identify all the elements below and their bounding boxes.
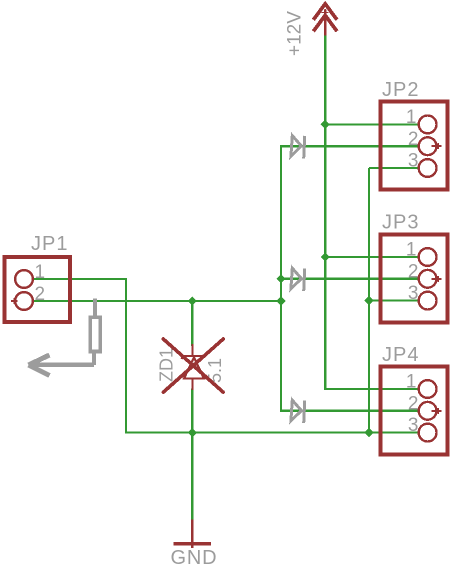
wire JP2 pin3 vertical: [368, 168, 370, 433]
zener diode ZD1 bar: [182, 353, 207, 359]
svg-text:1: 1: [406, 107, 417, 128]
connector JP4 pin 3 circle: [419, 424, 437, 442]
junction node zener top: [188, 296, 197, 305]
svg-text:JP2: JP2: [382, 79, 419, 101]
wire JP1 pin1 horizontal: [33, 278, 127, 280]
connector JP1 box: [5, 257, 70, 322]
wire zener branch upper: [191, 301, 193, 346]
svg-text:1: 1: [406, 240, 417, 261]
connector JP2 pin 1 circle: [419, 116, 437, 134]
svg-text:JP1: JP1: [31, 233, 68, 255]
junction node at +12V / JP2 pin1: [321, 120, 330, 129]
connector JP2 pin 3 circle: [419, 159, 437, 177]
svg-text:2: 2: [35, 284, 46, 305]
connector JP3 pin 2 circle: [419, 270, 437, 288]
wire JP1 pin2 horizontal: [33, 300, 281, 302]
junction node diode chain / JP1 pin2: [276, 296, 285, 305]
wire diode chain vertical: [280, 146, 282, 411]
power symbol +12V: [313, 4, 337, 36]
DNP cross over ZD1: [163, 339, 223, 392]
wire +12V to JP3 pin1: [325, 256, 418, 258]
svg-text:3: 3: [408, 283, 419, 304]
resistor ghost body: [90, 298, 100, 364]
wire JP2 pin3 horizontal: [369, 167, 418, 169]
connector JP1 pin 1 circle: [15, 270, 33, 288]
connector JP1 pin 2 stub: [11, 300, 18, 302]
ground symbol pin: [191, 520, 193, 549]
connector JP1 pin 2 circle: [15, 292, 33, 310]
zener diode ZD1 pin top: [191, 344, 193, 357]
svg-text:JP4: JP4: [382, 344, 419, 366]
svg-text:GND: GND: [171, 547, 218, 568]
wire D3 to JP4 pin2: [280, 410, 418, 412]
svg-text:2: 2: [408, 129, 419, 150]
connector JP4 pin 2 circle: [419, 402, 437, 420]
junction node ground rail / JP4 pin3: [364, 428, 373, 437]
ground symbol bar: [173, 542, 211, 546]
wire ground stub: [191, 433, 193, 520]
connector JP3 pin 3 circle: [419, 292, 437, 310]
svg-text:ZD1: ZD1: [157, 348, 177, 382]
wire +12V vertical: [324, 36, 326, 390]
connector JP4 box: [380, 367, 447, 455]
wire +12V to JP4 pin1: [324, 388, 418, 390]
wire D1 to JP2 pin2: [280, 145, 418, 147]
connector JP3 pin 1 circle: [419, 248, 437, 266]
svg-text:+12V: +12V: [285, 11, 306, 56]
svg-text:3: 3: [408, 151, 419, 172]
junction node ground rail / zener: [188, 428, 197, 437]
diode D1: [291, 136, 305, 159]
arrow ghost: [29, 355, 95, 376]
connector JP2 pin 2 stub: [431, 145, 441, 147]
zener diode ZD1 pin bottom: [191, 379, 193, 390]
zener diode ZD1 triangle: [184, 358, 204, 379]
connector JP3 pin 2 stub: [431, 278, 441, 280]
diode D2: [291, 268, 305, 291]
diode D3: [291, 400, 305, 423]
junction node diode chain / JP3 pin2: [276, 274, 285, 283]
connector JP2 box: [380, 102, 447, 190]
svg-text:3: 3: [408, 415, 419, 436]
wire zener branch lower: [191, 389, 193, 433]
svg-text:1: 1: [406, 372, 417, 393]
junction node at +12V / JP3 pin1: [321, 252, 330, 261]
connector JP2 pin 2 circle: [419, 137, 437, 155]
svg-text:JP3: JP3: [382, 212, 419, 234]
connector JP4 pin 2 stub: [431, 410, 441, 412]
svg-text:1: 1: [35, 262, 46, 283]
wire +12V to JP2 pin1: [325, 123, 418, 125]
wire JP1 pin1 vertical: [125, 279, 127, 434]
connector JP4 pin 1 circle: [419, 380, 437, 398]
svg-text:2: 2: [408, 393, 419, 414]
connector JP3 box: [380, 235, 447, 323]
junction node JP3 pin3: [364, 296, 373, 305]
svg-text:2: 2: [408, 261, 419, 282]
wire D2 to JP3 pin2: [281, 278, 418, 280]
wire JP3 pin3 stub: [369, 300, 418, 302]
wire ground rail: [126, 432, 418, 434]
